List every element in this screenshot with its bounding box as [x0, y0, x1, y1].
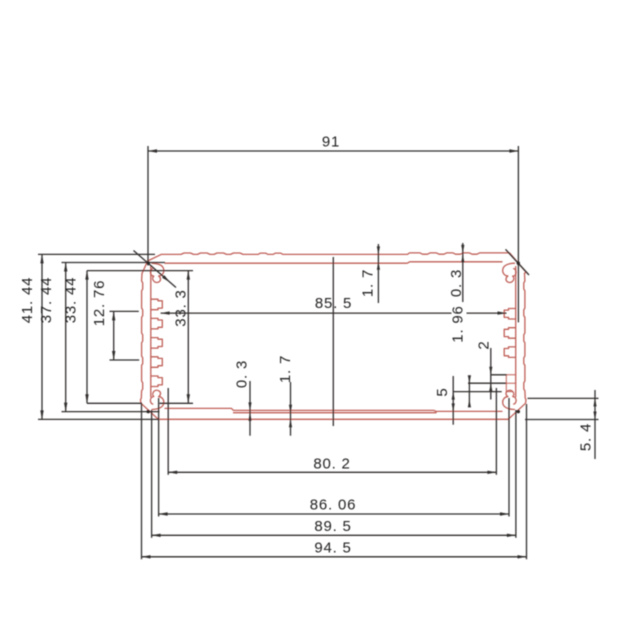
dim 41.44 arrow top — [40, 254, 43, 263]
right wall rib ladder — [506, 375, 515, 392]
dim 0.3 top ticks — [461, 245, 464, 253]
svg-text:37. 44: 37. 44 — [38, 277, 55, 324]
dim 5.4 ext bottom — [525, 419, 599, 421]
left bottom screw boss — [150, 390, 163, 409]
dim 41.44 ext bottom — [38, 418, 158, 420]
right wall top connector — [525, 272, 526, 274]
dim 33.44 arrow bottom — [85, 394, 88, 403]
top-right corner dot — [517, 262, 520, 265]
bottom wall inner surface — [165, 408, 502, 411]
dim 85.5 arrow right — [498, 311, 507, 314]
svg-text:41. 44: 41. 44 — [19, 277, 36, 324]
dim 5.4 ext top — [528, 397, 599, 399]
svg-text:12. 76: 12. 76 — [91, 280, 108, 327]
svg-text:2: 2 — [476, 340, 493, 349]
dim 37.44 ext bottom — [62, 411, 160, 413]
top-right corner leader — [506, 249, 530, 275]
dim 2 ext top — [491, 374, 507, 376]
dim 5.4 line — [594, 390, 596, 459]
dim 85.5 line — [161, 312, 452, 314]
bottom-right corner dot — [517, 410, 520, 413]
dim 37.44 ext top — [62, 262, 166, 264]
bottom-left corner dot — [147, 410, 150, 413]
svg-text:1. 7: 1. 7 — [277, 355, 294, 383]
bottom wall outer surface — [159, 418, 510, 420]
dim 0.3 top line — [462, 243, 464, 302]
svg-text:1. 7: 1. 7 — [360, 269, 377, 297]
dim 37.44 arrow bottom — [64, 403, 67, 412]
top wall inner surface left — [165, 262, 408, 264]
dim 12.76 ext top — [110, 310, 139, 312]
dim 86.06 line — [159, 513, 509, 515]
dim 41.44 line — [41, 254, 43, 419]
svg-text:33. 44: 33. 44 — [63, 277, 80, 324]
left wall top slant — [142, 261, 148, 274]
top-left corner dot — [147, 261, 150, 264]
svg-text:33. 3: 33. 3 — [173, 289, 190, 326]
svg-text:86. 06: 86. 06 — [310, 497, 357, 514]
dim 1.7 bottom ticks — [289, 405, 292, 413]
top-left corner leader — [134, 251, 177, 288]
dim 33.3 arrow top — [187, 271, 190, 280]
dim 41.44 ext top — [38, 253, 155, 255]
dim 94.5 ext left — [141, 404, 143, 559]
dim 0.3 bottom line — [249, 381, 251, 436]
dim 12.76 ext bottom — [110, 359, 140, 361]
dim 94.5 arrows — [142, 555, 151, 558]
svg-text:1. 96: 1. 96 — [450, 305, 467, 342]
dim 80.2 ext right — [495, 388, 497, 475]
dim 80.2 line — [168, 471, 496, 473]
dim 33.44 ext bottom — [87, 402, 142, 404]
dim 12.76 arrow bottom — [112, 351, 115, 360]
dim 5 line — [452, 376, 454, 425]
dim 2 ext vertical — [468, 376, 470, 407]
top wall inner surface right — [408, 262, 410, 263]
svg-text:0. 3: 0. 3 — [448, 269, 465, 297]
svg-text:0. 3: 0. 3 — [234, 360, 251, 388]
dim 5 arrows — [452, 392, 455, 400]
dim 2 line — [490, 348, 492, 400]
dim 37.44 line — [65, 263, 67, 412]
dim 91 extension line right — [517, 146, 519, 322]
dim 2 ext bottom — [468, 382, 506, 384]
dim 37.44 arrow top — [64, 263, 67, 272]
svg-text:89. 5: 89. 5 — [314, 518, 351, 535]
svg-text:5: 5 — [434, 387, 451, 396]
dim 5.4 arrows — [593, 398, 596, 406]
dim 1.7 bottom line — [290, 382, 292, 436]
dim 86.06 ext right — [508, 398, 510, 517]
dim 41.44 arrow bottom — [40, 410, 43, 419]
centre extension line — [332, 257, 334, 426]
right wall inner comb — [504, 267, 516, 397]
svg-text:5. 4: 5. 4 — [578, 423, 595, 451]
dim 33.3 arrow bottom — [187, 394, 190, 403]
svg-text:94. 5: 94. 5 — [314, 540, 351, 557]
right wall group (mirrored) — [503, 263, 526, 419]
svg-text:85. 5: 85. 5 — [315, 295, 352, 312]
dim 80.2 arrows — [168, 471, 177, 474]
left top screw boss — [150, 263, 163, 282]
dim 89.5 arrows — [152, 534, 161, 537]
dim 91 arrow right — [509, 149, 518, 152]
dim 33.44 line — [86, 271, 88, 404]
dim 1.7 top line — [377, 244, 379, 303]
dim 33.44 ext top — [87, 270, 193, 272]
left wall outer surface — [141, 274, 159, 420]
dim 89.5 ext left — [151, 410, 153, 538]
dim 33.44 arrow top — [85, 271, 88, 280]
left wall inner comb — [151, 267, 163, 397]
dim 94.5 ext right — [526, 404, 528, 559]
dim 94.5 line — [142, 556, 527, 558]
dim 89.5 ext right — [515, 410, 517, 538]
dim 5 ext top — [453, 391, 502, 393]
dim 86.06 ext left — [158, 398, 160, 517]
dim 89.5 line — [152, 534, 516, 536]
dim 91 extension line left — [147, 146, 149, 266]
dim 80.2 ext left — [167, 388, 169, 475]
dim 85.5 arrow left — [161, 311, 170, 314]
bottom wall slot line — [234, 411, 437, 412]
top wall outer surface — [148, 253, 526, 272]
dim 33.3 line — [187, 271, 189, 404]
dim 91 arrow left — [148, 149, 157, 152]
dim 2 ticks — [489, 367, 492, 375]
dim 91 line — [148, 150, 518, 152]
dim 12.76 arrow top — [112, 311, 115, 320]
dim 0.3 bottom ticks — [248, 402, 251, 410]
dim 86.06 arrows — [159, 512, 168, 515]
svg-text:91: 91 — [322, 134, 340, 151]
dim 12.76 line — [113, 311, 115, 360]
svg-text:80. 2: 80. 2 — [313, 456, 350, 473]
dim 1.7 top ticks — [377, 246, 380, 254]
